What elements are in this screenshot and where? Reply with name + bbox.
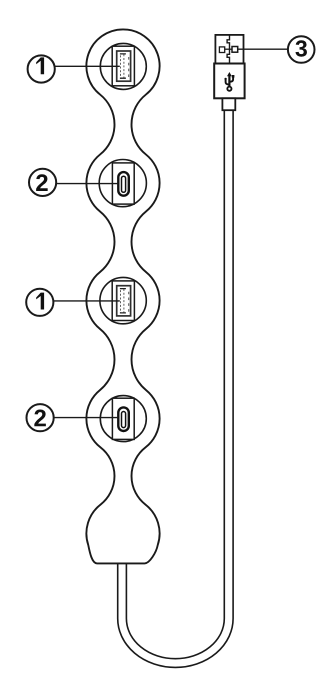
USB plug housing — [214, 64, 244, 99]
USB-A port 1 tongue (hidden lines) — [121, 54, 124, 78]
USB trident icon — [226, 75, 234, 91]
leader line for callout 1 (top USB-A port) — [55, 65, 120, 67]
hub body outline: four pods joined by waists ending in bell foot — [86, 29, 159, 563]
USB-A port 1 contact dashes — [128, 57, 130, 77]
USB plug shell seam — [227, 35, 229, 64]
USB-A port 3 tongue top/bottom marks — [120, 289, 126, 313]
callout circle (2) — [29, 169, 56, 196]
leader line for second callout 1 (second USB-A port) — [53, 300, 120, 302]
USB-A port 1 bezel rectangle — [112, 46, 134, 86]
USB-C port 4 receptacle pill — [118, 407, 129, 431]
USB plug shell right hole — [232, 47, 238, 53]
USB-C port 2 receptacle pill — [118, 172, 129, 196]
callout circle (1) — [26, 289, 53, 316]
leader line for second callout 2 (second USB-C port) — [54, 417, 119, 419]
trident arrowhead — [227, 72, 232, 76]
pod 2 inner circle — [99, 160, 146, 207]
USB plug strain relief — [222, 98, 235, 110]
callout circle (3) — [288, 36, 315, 63]
USB-C port 2 tongue slot — [122, 176, 126, 192]
leader line for callout 2 (first USB-C port) — [56, 183, 118, 185]
callout circle (2) — [26, 404, 53, 431]
trident branch dot — [224, 78, 226, 80]
connector line between shell holes — [225, 48, 232, 50]
trident branch square — [232, 75, 235, 78]
USB-C port 4 bezel rectangle — [112, 398, 134, 439]
cable: outer run from hub bottom through U-turn up to plug — [118, 110, 233, 667]
USB-A port 3 metal shell — [117, 286, 131, 316]
cable: inner run — [126, 110, 224, 659]
USB-A port 1 metal shell — [117, 51, 131, 81]
USB-A port 1 tongue top/bottom marks — [120, 54, 126, 78]
pod 4 inner circle — [100, 396, 146, 442]
callout circle (1) — [28, 55, 55, 82]
pod 3 inner circle — [100, 277, 146, 323]
USB plug shell left hole — [219, 47, 224, 53]
USB plug metal shell — [215, 35, 243, 64]
USB-C port 4 tongue slot — [122, 412, 126, 428]
leader line for callout 3 (USB plug) — [238, 48, 288, 50]
USB-A port 3 tongue (hidden lines) — [121, 289, 124, 313]
USB-A port 3 bezel rectangle — [112, 281, 134, 321]
pod 1 inner circle — [100, 43, 146, 89]
USB-A port 3 contact dashes — [128, 292, 130, 312]
USB-C port 2 bezel rectangle — [112, 163, 134, 204]
